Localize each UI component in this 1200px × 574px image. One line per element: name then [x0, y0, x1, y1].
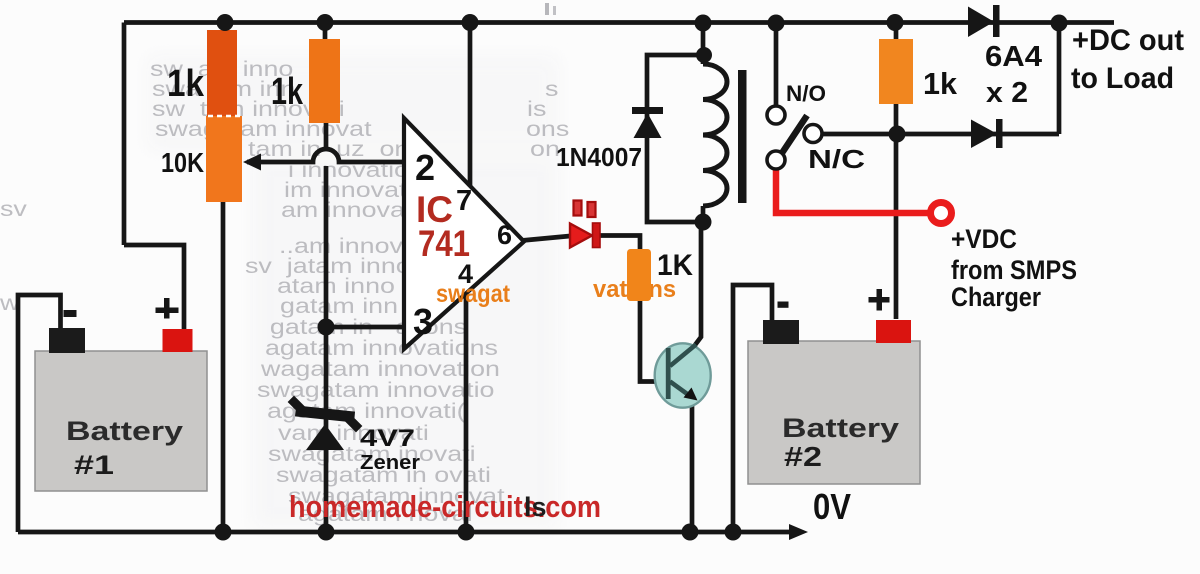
- wire battery2 minus: [733, 285, 772, 532]
- wire pin4 ground: [464, 293, 469, 532]
- svg-text:Battery: Battery: [782, 413, 899, 443]
- battery B2: [748, 341, 920, 484]
- svg-text:7: 7: [456, 185, 472, 217]
- scan marks: [545, 3, 549, 15]
- wire battery1 minus: [18, 295, 61, 532]
- resistor R5 1k: [879, 39, 913, 104]
- WATERMARK: [0, 58, 676, 527]
- svg-text:2: 2: [415, 147, 435, 188]
- relay coil arcs: [703, 64, 727, 206]
- svg-text:6: 6: [497, 220, 512, 250]
- zener D2 4V7: [301, 412, 349, 417]
- switch arm: [782, 116, 807, 154]
- svg-text:Charger: Charger: [951, 282, 1041, 312]
- svg-text:+DC out: +DC out: [1072, 24, 1184, 57]
- junction diode cathodes: [1051, 15, 1068, 32]
- wire battery1 plus: [124, 245, 184, 329]
- wire emitter lead: [690, 399, 695, 532]
- wire R1 top lead: [222, 23, 227, 33]
- red ring terminal: [931, 203, 952, 224]
- diode 6A4 top: [968, 7, 994, 38]
- wire relay top: [701, 23, 706, 65]
- resistor 10K preset: [206, 116, 242, 202]
- wire pin7 supply: [468, 23, 473, 187]
- svg-text:N/C: N/C: [808, 144, 865, 174]
- svg-text:0V: 0V: [813, 486, 851, 527]
- junction R1 top rail: [217, 14, 234, 31]
- wire bottom rail: [18, 530, 794, 535]
- junction relay coil top / 1N4007: [696, 47, 712, 63]
- junction pin7 top rail: [462, 14, 479, 31]
- LED D3: [570, 224, 592, 248]
- svg-text:4V7: 4V7: [360, 425, 415, 452]
- wire 10K bottom lead: [221, 200, 226, 532]
- diode 6A4 bottom: [971, 120, 997, 149]
- svg-text:1k: 1k: [923, 66, 958, 101]
- svg-text:741: 741: [418, 223, 470, 264]
- wire red VDC input: [776, 168, 929, 213]
- junction emitter bottom rail: [682, 524, 699, 541]
- junction relay coil bottom / collector: [695, 214, 712, 231]
- wire R2 bottom to zener node: [324, 122, 329, 148]
- svg-text:#2: #2: [784, 441, 822, 472]
- switch contact N/C: [767, 151, 785, 169]
- wire diode pair right vertical: [1057, 23, 1062, 135]
- svg-text:1K: 1K: [657, 249, 693, 282]
- resistor R2 1k: [309, 39, 340, 123]
- wire top rail: [124, 20, 1114, 25]
- wire opamp output to LED: [522, 236, 570, 241]
- svg-text:sv: sv: [0, 198, 27, 222]
- junction battery2 minus bottom rail: [725, 524, 742, 541]
- switch contact N/O: [767, 106, 785, 124]
- junction zener bottom rail: [318, 524, 335, 541]
- svg-text:homemade-circuits.com: homemade-circuits.com: [289, 489, 601, 524]
- label plus B2: [869, 297, 890, 303]
- relay core bar: [738, 70, 747, 203]
- svg-text:am innovati: am innovati: [281, 199, 418, 223]
- svg-text:Zener: Zener: [360, 452, 420, 474]
- op-amp U1 triangle: [404, 118, 524, 349]
- wire R5 bottom to battery2 plus: [894, 103, 899, 319]
- wire collector: [695, 222, 701, 345]
- junction R5 top rail: [887, 14, 904, 31]
- label plus B1: [156, 308, 179, 314]
- wiper arrow: [243, 154, 261, 171]
- LED light marks: [574, 201, 582, 216]
- wire switch pole vertical: [774, 23, 779, 107]
- resistor R4 1K: [627, 249, 651, 301]
- wire LED to 1K: [598, 236, 640, 251]
- label minus B2: [778, 302, 789, 308]
- wire 1N4007 branch: [647, 55, 703, 222]
- svg-text:swagat: swagat: [436, 280, 511, 308]
- svg-text:1k: 1k: [271, 71, 304, 113]
- diode 1N4007: [632, 107, 663, 114]
- svg-text:+VDC: +VDC: [951, 224, 1017, 254]
- svg-text:6A4: 6A4: [985, 41, 1042, 73]
- junction switch top rail: [768, 15, 785, 32]
- wire relay coil bottom: [701, 206, 706, 222]
- svg-text:#1: #1: [74, 450, 114, 480]
- node pin3 / zener / R2: [318, 319, 335, 336]
- svg-text:1N4007: 1N4007: [556, 142, 642, 172]
- svg-text:to Load: to Load: [1071, 62, 1174, 95]
- wire left vertical: [122, 23, 127, 246]
- wire pin3: [326, 325, 405, 330]
- svg-text:1k: 1k: [167, 63, 205, 105]
- 0V arrow: [789, 524, 808, 540]
- battery B1: [35, 351, 207, 491]
- wire pin2 with hop: [247, 149, 405, 162]
- junction pole row / R5 bottom: [889, 126, 906, 143]
- resistor R1 1k: [207, 30, 237, 117]
- junction R2 top rail: [317, 14, 334, 31]
- switch pole: [804, 125, 822, 143]
- wire switch common to diode row: [822, 132, 1059, 137]
- junction 10K bottom rail: [215, 524, 232, 541]
- wire 1K to base: [640, 300, 656, 382]
- svg-text:3: 3: [413, 301, 433, 342]
- transistor Q1: [655, 343, 711, 407]
- svg-text:ls: ls: [524, 492, 547, 522]
- svg-text:agatam innovations: agatam innovations: [265, 337, 498, 361]
- junction pin4 bottom rail: [458, 524, 475, 541]
- svg-text:10K: 10K: [161, 147, 204, 178]
- svg-text:s: s: [545, 78, 558, 102]
- svg-text:N/O: N/O: [786, 81, 826, 106]
- wire R2 top lead: [323, 23, 328, 41]
- svg-text:from SMPS: from SMPS: [951, 255, 1077, 285]
- junction relay top rail: [695, 15, 712, 32]
- label minus B1: [64, 310, 77, 317]
- svg-text:Battery: Battery: [66, 416, 183, 446]
- svg-text:x 2: x 2: [986, 77, 1028, 109]
- wire R5 top lead: [894, 23, 899, 41]
